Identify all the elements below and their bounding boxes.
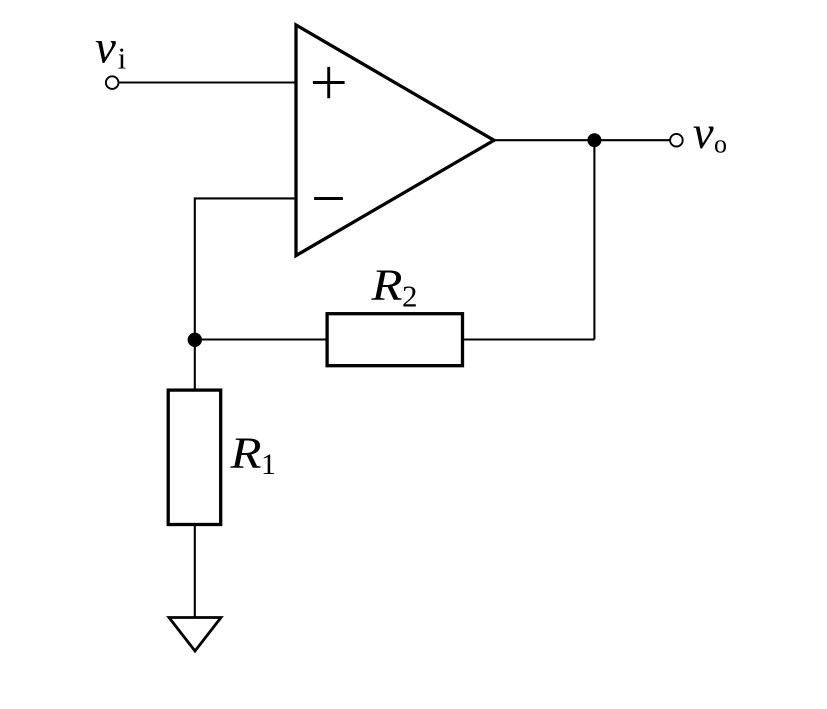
svg-text:R: R: [370, 261, 402, 310]
svg-text:R: R: [229, 429, 261, 478]
svg-text:v: v: [693, 107, 714, 159]
svg-text:2: 2: [402, 279, 418, 314]
svg-text:i: i: [118, 40, 127, 75]
svg-text:1: 1: [261, 448, 276, 481]
svg-text:v: v: [95, 22, 116, 74]
svg-text:o: o: [714, 130, 727, 159]
